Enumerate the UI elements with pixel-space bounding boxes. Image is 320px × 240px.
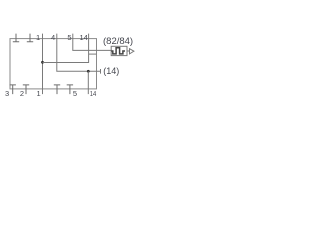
svg-text:4: 4 (51, 33, 55, 42)
fuse meander element (111, 48, 125, 54)
relay box outline (10, 39, 97, 89)
wire pin5-top to fuse (82/84) (73, 34, 111, 51)
pin 2 bottom terminal (23, 85, 29, 94)
junction node on pin1 wire (41, 61, 44, 64)
terminal T3 (unlabeled, bottom) (54, 85, 60, 94)
pin 5 bottom terminal (67, 85, 73, 94)
junction node to pin14-bottom (87, 70, 90, 73)
svg-text:14: 14 (90, 89, 97, 98)
arrow tip to (82/84) (127, 49, 134, 54)
svg-text:1: 1 (36, 33, 40, 42)
wire pin4-top to (14) output (57, 34, 101, 72)
end dash of (14) output (100, 69, 102, 74)
svg-text:5: 5 (67, 33, 71, 42)
svg-text:5: 5 (73, 89, 77, 98)
terminal T2 (unlabeled, top) (27, 34, 33, 42)
stub wire to box right edge (89, 53, 97, 55)
svg-text:(14): (14) (103, 66, 119, 76)
pin 3 bottom terminal (10, 85, 16, 94)
svg-text:14: 14 (79, 33, 87, 42)
svg-text:2: 2 (20, 89, 24, 98)
wire pin1-top to pin1-bottom (vertical) (42, 34, 44, 95)
svg-text:3: 3 (5, 89, 9, 98)
wire junction to pin14-bottom (87, 71, 89, 94)
wire junction to pin14-top (43, 34, 89, 63)
svg-text:1: 1 (37, 89, 41, 98)
terminal T1 (unlabeled, top-left) (13, 34, 19, 42)
svg-text:(82/84): (82/84) (103, 36, 133, 47)
fuse element (82/84) body (111, 46, 127, 55)
